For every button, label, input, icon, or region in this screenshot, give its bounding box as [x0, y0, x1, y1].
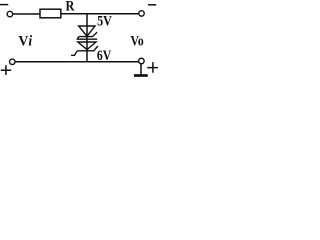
zener diode D1 5V : triangle [79, 26, 95, 36]
minus sign (output top) [149, 4, 156, 6]
plus sign (input bottom) [2, 66, 11, 74]
wire [13, 13, 40, 15]
wire (vertical branch at node x=87) [86, 14, 88, 61]
svg-text:5V: 5V [97, 12, 112, 29]
zener diode D2 6V : triangle [78, 42, 96, 50]
wire [61, 13, 138, 15]
terminal output bottom [139, 58, 145, 64]
terminal input bottom [10, 59, 16, 65]
wire (terminal to ground) [140, 64, 142, 74]
svg-text:6V: 6V [97, 47, 111, 64]
svg-text:R: R [66, 0, 76, 14]
svg-text:Vo: Vo [131, 33, 145, 50]
wire (bottom rail) [16, 61, 139, 63]
svg-text:Vi: Vi [18, 33, 32, 50]
plus sign (output bottom) [148, 63, 158, 72]
terminal input top [7, 11, 13, 17]
terminal output top [139, 11, 145, 17]
ground [135, 74, 146, 77]
resistor R [40, 9, 61, 18]
zener diode D2 6V : cathode bar with bent tips [72, 47, 98, 56]
zener diode D1 5V : cathode bar with bent tips [77, 33, 96, 40]
minus sign (input top) [1, 4, 8, 6]
